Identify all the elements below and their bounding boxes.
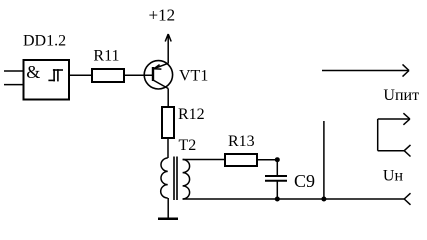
wire C9 to bottom rail [276,181,278,199]
svg-text:T2: T2 [179,137,197,154]
wire R13 to node A [257,159,277,161]
svg-text:Uпит: Uпит [383,87,419,104]
fork terminal bottom rail [404,193,410,205]
wire node A to C9 [276,160,278,176]
svg-text:Uн: Uн [383,167,404,184]
wire bottom rail [183,198,405,200]
transformer T2 primary winding [161,158,168,198]
wire R11 to VT1 base [124,74,153,76]
arrow Upit [322,64,409,76]
capacitor C9 [265,176,287,181]
svg-text:R11: R11 [93,48,119,65]
resistor R12 [162,107,174,138]
node B [275,197,280,202]
wire primary to ground [167,198,169,218]
transformer T2 secondary winding [183,160,190,200]
wire collector to +12 with arrow [165,34,171,64]
resistor R11 [92,69,124,82]
resistor R13 [225,154,257,166]
wire R12 to transformer [167,138,169,158]
svg-text:VT1: VT1 [179,68,208,85]
ground [158,218,178,221]
svg-text:C9: C9 [294,171,315,191]
input wire 2 [4,84,24,86]
connector bracket Upit [378,113,411,156]
svg-text:R12: R12 [178,106,205,123]
transformer T2 core [174,157,177,201]
wire gate output to R11 [69,74,92,76]
svg-text:&: & [26,62,40,82]
logic gate DD1.2 body [24,60,70,100]
svg-text:R13: R13 [228,133,255,150]
svg-text:+12: +12 [149,6,176,25]
input wire 1 [4,70,24,72]
wire secondary top to R13 [183,159,225,161]
svg-text:DD1.2: DD1.2 [23,33,66,50]
pulse shaper symbol [48,69,63,81]
vertical wire at node C [323,121,325,199]
node A [275,157,280,162]
transistor VT1 [144,61,172,89]
node C [321,197,326,202]
wire VT1 to R12 [167,89,169,108]
